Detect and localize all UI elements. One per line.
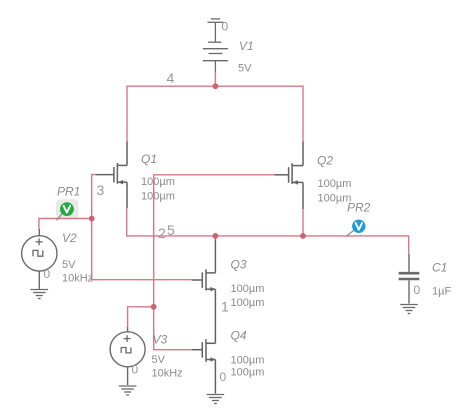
junction (Q2 source / rail) — [300, 233, 306, 239]
wire rail node 4 — [127, 86, 303, 141]
ground (V2) — [31, 290, 49, 299]
svg-text:100µm: 100µm — [141, 176, 175, 188]
svg-text:100µm: 100µm — [231, 355, 265, 367]
svg-text:2: 2 — [158, 225, 166, 241]
ground GND1 (top, above V1) — [208, 19, 224, 42]
wire net 2 (V3 to Q2/Q4 gates) — [128, 175, 275, 350]
probe PR1 — [60, 202, 74, 216]
wire net 3 (V2 to Q1/Q3 gates) — [39, 175, 192, 280]
arrow (Q3 source) — [210, 287, 215, 292]
junction (net 3) — [89, 216, 95, 222]
svg-text:100µm: 100µm — [231, 283, 265, 295]
capacitor C1 — [399, 254, 420, 304]
svg-text:0: 0 — [44, 267, 51, 281]
arrow (Q2 source) — [293, 180, 298, 185]
arrow (Q1 source) — [118, 180, 123, 185]
svg-text:100µm: 100µm — [231, 297, 265, 309]
transistor Q1 — [96, 141, 128, 208]
probe PR1 halo — [56, 199, 79, 219]
source V2 — [22, 229, 57, 289]
svg-text:Q1: Q1 — [141, 152, 157, 166]
svg-text:10kHz: 10kHz — [152, 368, 183, 380]
svg-text:0: 0 — [414, 283, 421, 297]
svg-text:PR2: PR2 — [347, 201, 371, 215]
svg-text:Q2: Q2 — [317, 154, 333, 168]
svg-text:3: 3 — [97, 182, 105, 198]
svg-text:100µm: 100µm — [141, 191, 175, 203]
wire battery V1 to rail — [214, 72, 216, 87]
probe PR1 pointer — [57, 213, 64, 221]
svg-text:5: 5 — [167, 222, 175, 238]
source V3 — [110, 327, 145, 385]
svg-text:100µm: 100µm — [231, 367, 265, 379]
svg-text:100µm: 100µm — [318, 178, 352, 190]
svg-text:V3: V3 — [153, 333, 168, 347]
ground (Q4) — [207, 395, 225, 404]
junction (battery / rail) — [213, 83, 219, 89]
transistor Q4 — [192, 339, 216, 393]
svg-text:V1: V1 — [239, 39, 254, 53]
svg-text:1: 1 — [221, 299, 229, 315]
svg-text:0: 0 — [220, 370, 227, 384]
probe PR2 — [352, 220, 365, 233]
svg-text:0: 0 — [132, 363, 139, 377]
ground (V3) — [119, 386, 137, 395]
svg-text:Q4: Q4 — [231, 329, 247, 343]
ground (C1) — [400, 305, 418, 314]
svg-text:PR1: PR1 — [57, 185, 80, 199]
svg-text:C1: C1 — [432, 261, 447, 275]
svg-text:5V: 5V — [152, 354, 166, 366]
junction (net 2 / V3) — [151, 304, 157, 310]
svg-text:0: 0 — [222, 20, 229, 34]
svg-text:5V: 5V — [62, 259, 76, 271]
svg-text:10kHz: 10kHz — [62, 273, 93, 285]
wire node 5 rail (output) — [127, 208, 409, 254]
junction (Q3 drain / rail) — [213, 233, 219, 239]
svg-text:1µF: 1µF — [432, 286, 451, 298]
svg-text:5V: 5V — [238, 63, 252, 75]
arrow (Q4 source) — [210, 357, 215, 362]
svg-text:V2: V2 — [62, 231, 77, 245]
transistor Q3 — [192, 240, 216, 344]
svg-text:4: 4 — [167, 70, 175, 86]
battery V1 — [203, 42, 228, 71]
svg-text:Q3: Q3 — [231, 258, 247, 272]
transistor Q2 — [274, 141, 303, 209]
probe PR2 pointer — [346, 230, 355, 237]
